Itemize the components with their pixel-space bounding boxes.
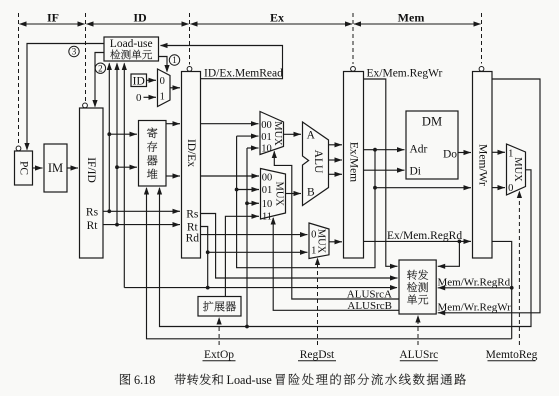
svg-text:ALU: ALU bbox=[312, 150, 324, 174]
svg-text:MUX: MUX bbox=[512, 157, 523, 182]
svg-text:Rs: Rs bbox=[86, 207, 99, 219]
svg-text:ID: ID bbox=[133, 75, 145, 87]
svg-text:10: 10 bbox=[261, 144, 272, 155]
svg-text:3: 3 bbox=[72, 47, 77, 57]
svg-text:11: 11 bbox=[262, 211, 272, 222]
svg-text:MUX: MUX bbox=[272, 121, 283, 146]
svg-text:RegDst: RegDst bbox=[300, 349, 335, 361]
svg-text:01: 01 bbox=[262, 185, 273, 196]
svg-text:Adr: Adr bbox=[410, 144, 428, 156]
svg-text:Mem/Wr: Mem/Wr bbox=[476, 144, 488, 186]
svg-text:IF: IF bbox=[47, 11, 59, 25]
svg-text:ALUSrc: ALUSrc bbox=[399, 349, 438, 361]
svg-text:PC: PC bbox=[18, 161, 30, 175]
svg-text:Ex/Mem: Ex/Mem bbox=[348, 142, 360, 182]
svg-text:IF/ID: IF/ID bbox=[85, 157, 97, 183]
svg-text:Load-use: Load-use bbox=[110, 38, 153, 50]
svg-text:Do: Do bbox=[443, 149, 457, 161]
svg-text:1: 1 bbox=[160, 92, 165, 103]
svg-text:6.18: 6.18 bbox=[134, 373, 155, 387]
svg-text:ID/Ex.MemRead: ID/Ex.MemRead bbox=[204, 68, 283, 80]
svg-text:Di: Di bbox=[410, 166, 422, 178]
svg-text:0: 0 bbox=[508, 183, 513, 194]
svg-text:MemtoReg: MemtoReg bbox=[486, 349, 538, 361]
svg-text:Mem/Wr.RegRd: Mem/Wr.RegRd bbox=[438, 276, 511, 288]
svg-text:Rt: Rt bbox=[87, 220, 99, 232]
svg-text:0: 0 bbox=[136, 92, 142, 104]
svg-text:00: 00 bbox=[262, 173, 273, 184]
svg-text:ALUSrcB: ALUSrcB bbox=[347, 300, 392, 312]
svg-text:Mem: Mem bbox=[398, 11, 425, 25]
svg-text:MUX: MUX bbox=[274, 182, 285, 207]
svg-text:MUX: MUX bbox=[315, 229, 326, 254]
svg-text:00: 00 bbox=[261, 120, 272, 131]
svg-text:ExtOp: ExtOp bbox=[204, 349, 234, 361]
svg-text:Rd: Rd bbox=[186, 233, 200, 245]
svg-text:Ex: Ex bbox=[270, 11, 284, 25]
svg-text:Ex/Mem.RegRd: Ex/Mem.RegRd bbox=[387, 230, 462, 242]
svg-text:ALUSrcA: ALUSrcA bbox=[347, 288, 392, 300]
svg-text:ID/Ex: ID/Ex bbox=[185, 139, 197, 167]
svg-text:ID: ID bbox=[133, 11, 147, 25]
svg-text:01: 01 bbox=[261, 132, 272, 143]
svg-text:Rs: Rs bbox=[186, 209, 199, 221]
svg-text:1: 1 bbox=[172, 55, 177, 65]
svg-text:0: 0 bbox=[160, 76, 165, 87]
svg-text:B: B bbox=[307, 186, 315, 198]
svg-text:DM: DM bbox=[422, 115, 442, 129]
svg-text:2: 2 bbox=[98, 63, 103, 73]
svg-text:IM: IM bbox=[48, 161, 63, 175]
svg-text:Mem/Wr.RegWr: Mem/Wr.RegWr bbox=[438, 301, 512, 313]
svg-text:A: A bbox=[307, 130, 316, 142]
svg-text:10: 10 bbox=[262, 199, 273, 210]
svg-text:Load-use: Load-use bbox=[227, 373, 272, 387]
svg-text:Ex/Mem.RegWr: Ex/Mem.RegWr bbox=[367, 68, 443, 80]
